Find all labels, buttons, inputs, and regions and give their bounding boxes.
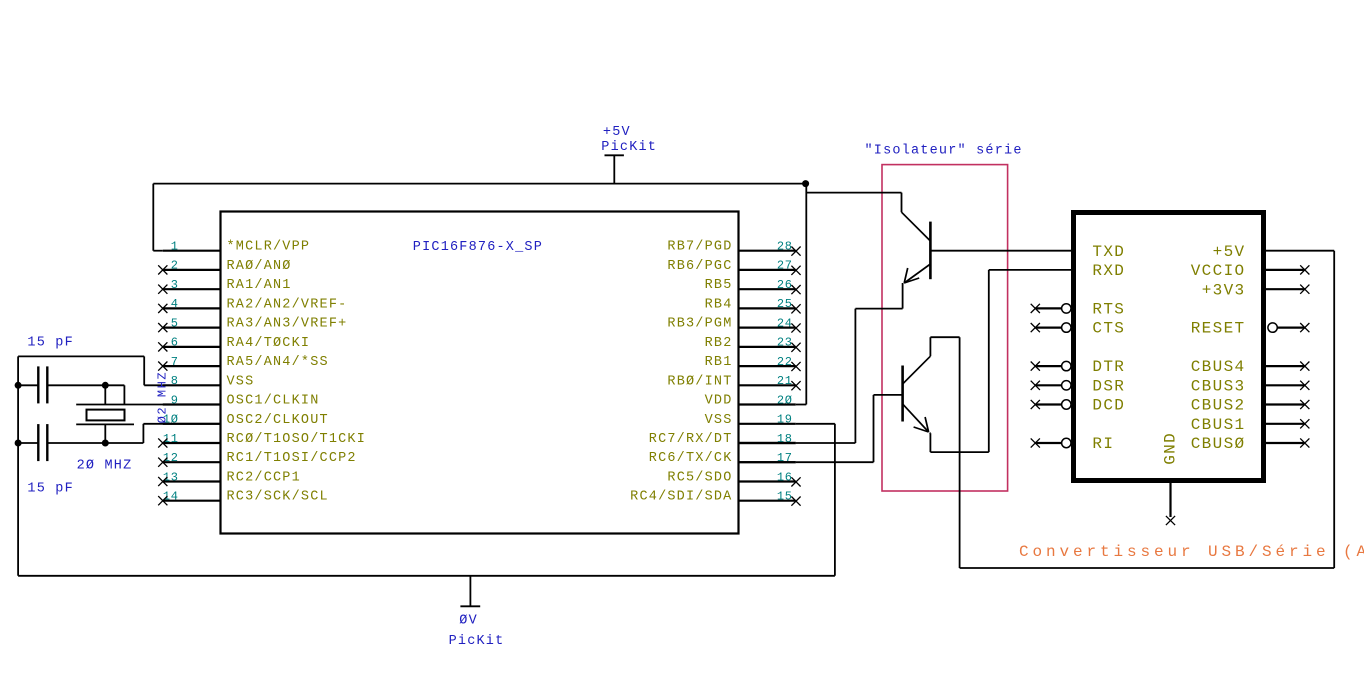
no-connect X pin 7 [158, 362, 167, 371]
no-connect X pin 16 [791, 477, 800, 486]
svg-text:2Ø MHZ: 2Ø MHZ [77, 458, 133, 473]
wire Q1 emitter to RC7 pin18 [902, 283, 904, 309]
wire to crystal top [104, 385, 106, 404]
svg-text:RA1/AN1: RA1/AN1 [227, 278, 292, 293]
wire collector Q1 from +5V [806, 192, 901, 194]
no-connect X CBUS4 [1300, 362, 1309, 371]
svg-text:RB7/PGD: RB7/PGD [667, 240, 732, 255]
pin 14 RC3/SCK/SCL [163, 500, 221, 502]
pin 6 RA4/T0CKI [163, 346, 221, 348]
no-connect X pin 2 [158, 265, 167, 274]
svg-text:23: 23 [777, 336, 793, 350]
wire VDD drop [805, 184, 807, 405]
wire left column [17, 356, 19, 575]
svg-text:DSR: DSR [1092, 377, 1125, 395]
svg-text:+5V: +5V [1213, 243, 1246, 261]
svg-text:RI: RI [1092, 435, 1114, 453]
capacitor C2 15pF [37, 424, 39, 461]
svg-text:Ø2 MHZ: Ø2 MHZ [155, 371, 169, 424]
pin 13 RC2/CCP1 [163, 480, 221, 482]
no-connect X CBUS0 [1300, 438, 1309, 447]
svg-text:CTS: CTS [1092, 320, 1125, 338]
no-connect X pin 27 [791, 266, 800, 275]
junction dot +5V/VDD [802, 180, 809, 187]
wire VSS19 drop [834, 424, 836, 576]
svg-text:RB5: RB5 [705, 278, 733, 293]
svg-text:RB4: RB4 [705, 297, 733, 312]
no-connect X DCD [1031, 400, 1040, 409]
svg-text:21: 21 [777, 374, 793, 388]
pin 11 RC0/T1OSO/T1CKI [163, 442, 221, 444]
svg-text:24: 24 [777, 316, 793, 330]
no-connect X pin 24 [791, 323, 800, 332]
svg-text:RC5/SDO: RC5/SDO [667, 471, 732, 486]
junction dot C2 left [15, 440, 22, 447]
no-connect X GND [1166, 516, 1175, 525]
svg-text:VCCIO: VCCIO [1191, 262, 1246, 280]
svg-text:15 pF: 15 pF [27, 336, 74, 351]
svg-text:PicKit: PicKit [601, 140, 657, 155]
svg-text:CBUS2: CBUS2 [1191, 397, 1246, 415]
pin 5 RA3/AN3/VREF+ [163, 327, 221, 329]
svg-text:DCD: DCD [1092, 397, 1125, 415]
wire Q2 collector to +5V loop [929, 337, 931, 356]
no-connect X pin 11 [158, 438, 167, 447]
svg-text:RB3/PGM: RB3/PGM [667, 317, 732, 332]
pin 17 RC6/TX/CK [739, 461, 796, 463]
no-connect X pin 12 [158, 458, 167, 467]
capacitor C1 15pF [37, 366, 39, 403]
svg-text:RC7/RX/DT: RC7/RX/DT [649, 432, 733, 447]
no-connect X CBUS2 [1300, 400, 1309, 409]
no-connect X pin 25 [791, 304, 800, 313]
no-connect X pin 21 [791, 381, 800, 390]
no-connect X pin 28 [791, 247, 800, 256]
svg-text:3: 3 [171, 278, 179, 292]
junction dot C1 left [15, 382, 22, 389]
svg-text:28: 28 [777, 240, 793, 254]
svg-text:DTR: DTR [1092, 358, 1125, 376]
svg-text:5: 5 [171, 316, 179, 330]
svg-text:7: 7 [171, 355, 179, 369]
wire GND pin [1169, 481, 1171, 518]
svg-text:VDD: VDD [705, 394, 733, 409]
svg-text:+3V3: +3V3 [1202, 281, 1246, 299]
svg-text:VSS: VSS [705, 413, 733, 428]
no-connect X RTS [1031, 304, 1040, 313]
junction dot C1 right [102, 382, 109, 389]
svg-text:RC1/T1OSI/CCP2: RC1/T1OSI/CCP2 [227, 451, 357, 466]
no-connect X CBUS1 [1300, 419, 1309, 428]
pin 21 RB0/INT [739, 384, 796, 386]
svg-text:RA5/AN4/*SS: RA5/AN4/*SS [227, 355, 329, 370]
no-connect X CBUS3 [1300, 381, 1309, 390]
pin 22 RB1 [739, 365, 796, 367]
svg-text:4: 4 [171, 297, 179, 311]
pin 24 RB3/PGM [739, 327, 796, 329]
svg-text:2: 2 [171, 259, 179, 273]
no-connect X RESET [1300, 323, 1309, 332]
no-connect X pin 4 [158, 304, 167, 313]
svg-text:RC4/SDI/SDA: RC4/SDI/SDA [630, 490, 732, 505]
wire +5V top rail [153, 183, 805, 185]
no-connect X pin 26 [791, 285, 800, 294]
wire OSC2 pin10 [143, 423, 220, 425]
svg-text:15: 15 [777, 490, 793, 504]
svg-text:RA2/AN2/VREF-: RA2/AN2/VREF- [227, 297, 348, 312]
no-connect X +3V3 [1300, 285, 1309, 294]
no-connect X DTR [1031, 362, 1040, 371]
svg-text:13: 13 [163, 470, 179, 484]
svg-text:27: 27 [777, 259, 793, 273]
junction dot C2 right [102, 440, 109, 447]
svg-text:OSC2/CLKOUT: OSC2/CLKOUT [227, 413, 329, 428]
pin 27 RB6/PGC [739, 269, 796, 271]
no-connect X pin 15 [791, 497, 800, 506]
no-connect X pin 13 [158, 477, 167, 486]
crystal bottom plate [76, 423, 134, 425]
pin 7 RA5/AN4/*SS [163, 365, 221, 367]
wire 0V bottom rail [18, 575, 835, 577]
no-connect X VCCIO [1300, 265, 1309, 274]
svg-text:OSC1/CLKIN: OSC1/CLKIN [227, 394, 320, 409]
svg-text:"Isolateur" série: "Isolateur" série [865, 144, 1023, 159]
pin 10 OSC2/CLKOUT [163, 423, 221, 425]
no-connect X RI [1031, 438, 1040, 447]
svg-text:RBØ/INT: RBØ/INT [667, 374, 732, 389]
no-connect X DSR [1031, 381, 1040, 390]
crystal Y1 body [87, 410, 125, 421]
no-connect X pin 23 [791, 343, 800, 352]
svg-text:CBUS3: CBUS3 [1191, 377, 1246, 395]
svg-text:RC3/SCK/SCL: RC3/SCK/SCL [227, 490, 329, 505]
wire C2 row [18, 442, 38, 444]
wire top loop to VSS pin8 [18, 355, 144, 357]
svg-text:RAØ/ANØ: RAØ/ANØ [227, 259, 292, 274]
pin 3 RA1/AN1 [163, 288, 221, 290]
transistor Q2 [903, 356, 931, 432]
no-connect X pin 6 [158, 342, 167, 351]
svg-text:RXD: RXD [1092, 262, 1125, 280]
pin 2 RA0/AN0 [163, 269, 221, 271]
pin 20 VDD [739, 403, 796, 405]
pin 23 RB2 [739, 346, 796, 348]
no-connect X CTS [1031, 323, 1040, 332]
pin 4 RA2/AN2/VREF- [163, 307, 221, 309]
pin 18 RC7/RX/DT [739, 442, 796, 444]
isolator graphic box [882, 165, 1008, 491]
PIC16F876 U1 body [221, 212, 739, 534]
pin 19 VSS [739, 423, 796, 425]
pin 25 RB4 [739, 307, 796, 309]
svg-text:22: 22 [777, 355, 793, 369]
svg-text:*MCLR/VPP: *MCLR/VPP [227, 240, 311, 255]
converter U2 body [1074, 213, 1264, 481]
svg-text:RC6/TX/CK: RC6/TX/CK [649, 451, 733, 466]
wire RC6 pin17 to Q2 base [739, 461, 796, 463]
svg-text:26: 26 [777, 278, 793, 292]
pin 16 RC5/SDO [739, 480, 796, 482]
svg-text:+5V: +5V [603, 125, 631, 140]
svg-text:CBUSØ: CBUSØ [1191, 435, 1246, 453]
wire rail to pin1 [152, 184, 154, 251]
wire C1 row [18, 384, 38, 386]
svg-text:14: 14 [163, 490, 179, 504]
pin 8 VSS [163, 384, 221, 386]
svg-text:8: 8 [171, 374, 179, 388]
svg-text:15 pF: 15 pF [27, 481, 74, 496]
svg-text:PicKit: PicKit [449, 634, 505, 649]
svg-text:16: 16 [777, 470, 793, 484]
pin 15 RC4/SDI/SDA [739, 500, 796, 502]
svg-text:RB6/PGC: RB6/PGC [667, 259, 732, 274]
svg-text:VSS: VSS [227, 374, 255, 389]
svg-text:CBUS4: CBUS4 [1191, 358, 1246, 376]
svg-text:19: 19 [777, 413, 793, 427]
pin 28 RB7/PGD [739, 250, 796, 252]
no-connect X pin 14 [158, 496, 167, 505]
svg-text:25: 25 [777, 297, 793, 311]
wire crystal bottom to C2 row [104, 424, 106, 443]
wire OSC1 / crystal top plate [76, 404, 220, 406]
svg-text:1: 1 [171, 240, 179, 254]
svg-text:RCØ/T1OSO/T1CKI: RCØ/T1OSO/T1CKI [227, 432, 367, 447]
pin 1 *MCLR/VPP [163, 250, 221, 252]
svg-text:12: 12 [163, 451, 179, 465]
power +5V PicKit symbol [605, 154, 624, 156]
svg-text:2Ø: 2Ø [777, 393, 793, 407]
svg-text:TXD: TXD [1092, 243, 1125, 261]
power 0V PicKit symbol [469, 576, 471, 607]
no-connect X pin 3 [158, 285, 167, 294]
svg-text:CBUS1: CBUS1 [1191, 416, 1246, 434]
wire Q1 base to TXD [930, 250, 1071, 252]
svg-text:PIC16F876-X_SP: PIC16F876-X_SP [413, 240, 543, 255]
svg-text:6: 6 [171, 336, 179, 350]
svg-text:RA3/AN3/VREF+: RA3/AN3/VREF+ [227, 317, 348, 332]
svg-text:RA4/TØCKI: RA4/TØCKI [227, 336, 311, 351]
svg-text:RESET: RESET [1191, 320, 1246, 338]
wire Q2 emitter to RXD [929, 432, 932, 434]
svg-text:RC2/CCP1: RC2/CCP1 [227, 471, 301, 486]
svg-text:RB2: RB2 [705, 336, 733, 351]
pin 26 RB5 [739, 288, 796, 290]
svg-text:11: 11 [163, 432, 179, 446]
pin 12 RC1/T1OSI/CCP2 [163, 461, 221, 463]
svg-text:RB1: RB1 [705, 355, 733, 370]
no-connect X pin 5 [158, 323, 167, 332]
svg-text:GND: GND [1161, 432, 1179, 465]
svg-text:RTS: RTS [1092, 301, 1125, 319]
no-connect X pin 22 [791, 362, 800, 371]
transistor Q1 [902, 212, 931, 283]
pin 9 OSC1/CLKIN [163, 403, 221, 405]
svg-text:Convertisseur USB/Série (A: Convertisseur USB/Série (A [1019, 543, 1364, 561]
svg-text:ØV: ØV [459, 614, 478, 629]
